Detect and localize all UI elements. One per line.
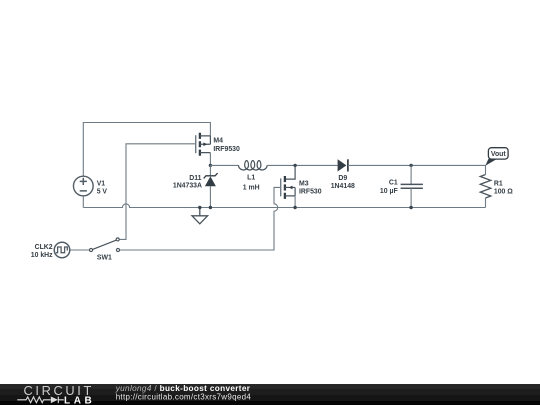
junction dot C1 bottom	[409, 206, 412, 209]
svg-text:L1: L1	[247, 175, 255, 182]
wire R1 bottom to rail	[485, 198, 487, 208]
svg-text:CLK2: CLK2	[35, 244, 53, 251]
wire SW1 lower throw to M3 gate (hops over bottom rail at y=207.5)	[120, 187, 281, 250]
svg-text:1N4148: 1N4148	[331, 183, 355, 190]
wire M3 source to bottom rail	[294, 196, 296, 208]
diode D9 1N4148	[338, 159, 348, 171]
zener diode D11 1N4733A	[204, 165, 218, 207]
svg-text:10 kHz: 10 kHz	[31, 252, 53, 259]
svg-text:yunlong4 / buck-boost converte: yunlong4 / buck-boost converter	[115, 384, 251, 393]
wire CLK2 to SW1 common	[70, 249, 89, 251]
svg-text:C1: C1	[389, 180, 398, 187]
wire L1 to node	[267, 164, 338, 166]
SW1 label	[97, 255, 112, 262]
switch SW1	[89, 238, 119, 252]
transistor M4 IRF9530 (PMOS)	[196, 133, 211, 156]
svg-text:D11: D11	[189, 175, 201, 182]
wire V1 minus to bottom rail	[82, 196, 84, 208]
svg-text:SW1: SW1	[97, 255, 112, 262]
ground	[192, 208, 208, 224]
junction dot M3 source / bottom rail	[293, 206, 296, 209]
svg-text:5 V: 5 V	[97, 189, 108, 196]
R1 label	[494, 181, 513, 196]
V1 value label	[97, 181, 108, 196]
svg-text:D9: D9	[338, 175, 347, 182]
junction dot L1 / M3 drain / D9	[293, 164, 296, 167]
M4 label	[213, 138, 240, 153]
svg-text:Vout: Vout	[491, 151, 507, 158]
resistor R1	[480, 175, 491, 199]
wire top rail from V1 plus to M4 drain	[83, 123, 210, 177]
wire node to L1	[210, 164, 238, 166]
svg-text:100 Ω: 100 Ω	[494, 188, 513, 195]
svg-text:IRF9530: IRF9530	[213, 146, 240, 153]
svg-text:M3: M3	[299, 180, 309, 187]
inductor L1	[239, 161, 268, 170]
L1 value label	[243, 175, 260, 192]
junction dot D11 anode / bottom rail	[209, 206, 212, 209]
M3 label	[299, 180, 322, 195]
junction dot C1 top	[409, 164, 412, 167]
clock source CLK2	[54, 242, 70, 258]
svg-text:IRF530: IRF530	[299, 188, 322, 195]
CircuitLab logo resistor-diode glyph	[17, 397, 64, 404]
svg-text:M4: M4	[213, 138, 223, 145]
node Vout flag	[485, 148, 508, 166]
footer title text	[115, 384, 252, 402]
voltage source V1	[73, 176, 93, 196]
svg-text:1N4733A: 1N4733A	[173, 182, 202, 189]
wire D9 cathode to C1 and Vout corner	[348, 165, 486, 174]
footer bar	[0, 384, 540, 405]
wire bottom ground rail (hops over switch wire at x=126)	[83, 204, 485, 208]
svg-text:V1: V1	[97, 181, 106, 188]
CLK2 label	[31, 244, 53, 259]
C1 label	[380, 180, 398, 195]
transistor M3 IRF530 (NMOS)	[281, 165, 295, 199]
capacitor C1	[401, 165, 423, 207]
svg-text:http://circuitlab.com/ct3xrs7w: http://circuitlab.com/ct3xrs7w9qed4	[116, 393, 252, 402]
CircuitLab logo text LAB	[64, 395, 95, 405]
svg-text:LAB: LAB	[64, 395, 95, 405]
junction dot M4 source / L1 / D11	[209, 164, 212, 167]
D9 label	[331, 175, 355, 190]
svg-text:R1: R1	[494, 181, 503, 188]
D11 label	[173, 175, 202, 189]
wire M4 gate to switch upper throw	[120, 144, 196, 240]
svg-text:1 mH: 1 mH	[243, 184, 260, 191]
CircuitLab logo text CIRCUIT	[24, 383, 94, 398]
wire M4 source down to node	[209, 153, 211, 166]
svg-text:10 µF: 10 µF	[380, 188, 398, 195]
junction dot ground / bottom rail	[198, 206, 201, 209]
